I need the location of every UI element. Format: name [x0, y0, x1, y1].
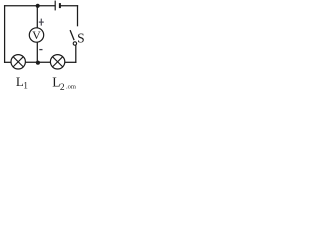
- wire left side vertical: [4, 6, 6, 63]
- switch S terminal circle: [73, 42, 76, 45]
- lamp L1 X cross: [13, 57, 23, 67]
- wire bottom-right horizontal: [65, 61, 76, 63]
- wire bottom-left horizontal: [5, 61, 11, 63]
- svg-text:1: 1: [23, 81, 28, 90]
- switch S blade: [70, 30, 74, 40]
- voltmeter U: circle: [29, 28, 43, 42]
- node junction dot bottom: [36, 61, 40, 65]
- battery cell: long positive plate: [54, 1, 56, 11]
- wire voltmeter top lead: [36, 6, 38, 28]
- wire between lamps: [25, 61, 50, 63]
- lamp L1: circle: [11, 55, 25, 69]
- svg-text:V: V: [32, 28, 41, 42]
- voltmeter + polarity label: [39, 19, 44, 26]
- voltmeter - polarity label: [39, 49, 42, 51]
- battery cell: short negative plate: [59, 3, 61, 8]
- node junction dot top: [36, 4, 40, 8]
- svg-text:S: S: [77, 30, 85, 45]
- wire right side upper vertical: [77, 6, 79, 26]
- wire voltmeter bottom lead: [36, 42, 38, 62]
- wire top-left horizontal: [5, 5, 55, 7]
- svg-text:2: 2: [60, 83, 65, 90]
- svg-text:.om: .om: [66, 84, 76, 91]
- wire top-right horizontal: [60, 5, 78, 7]
- lamp L2 X cross: [53, 57, 63, 67]
- lamp L2: circle: [50, 55, 64, 69]
- wire right side lower vertical: [75, 45, 77, 62]
